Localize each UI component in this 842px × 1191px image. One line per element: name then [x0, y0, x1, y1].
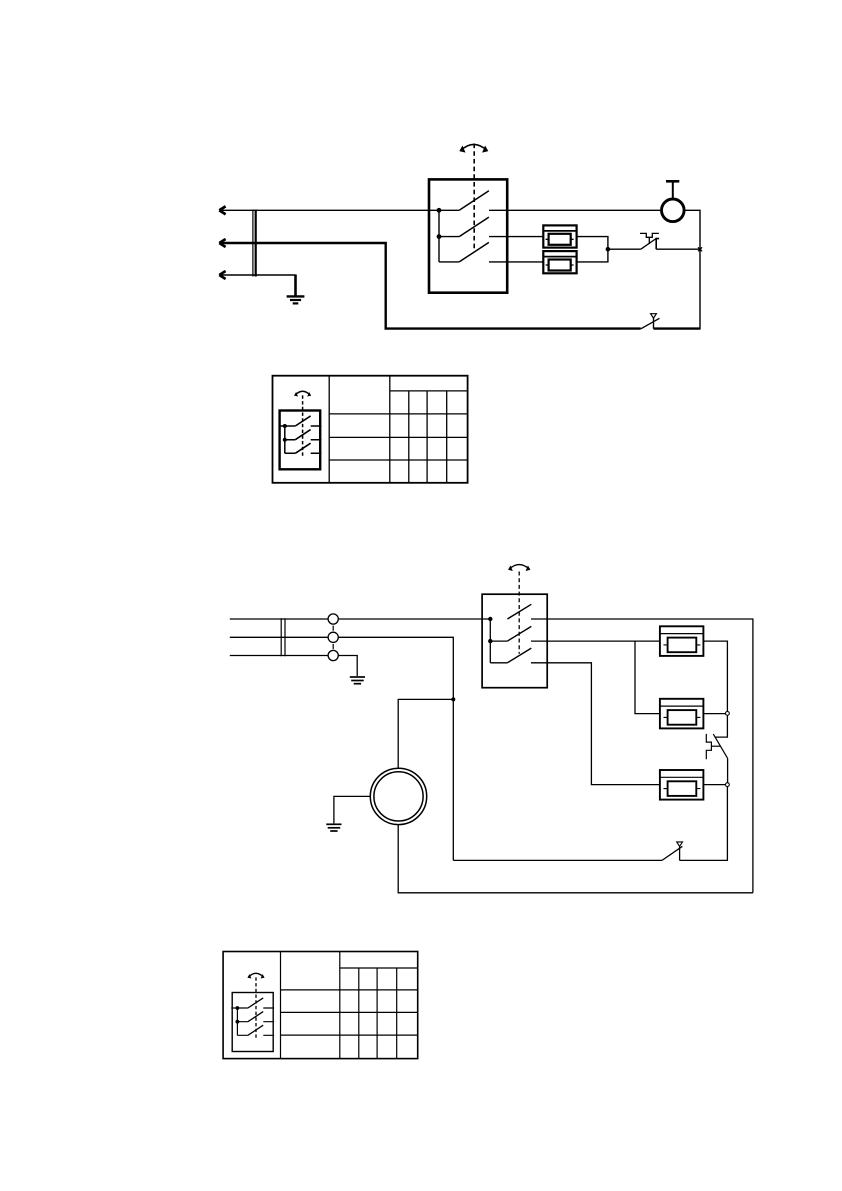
rotary switch S1 enclosure	[429, 179, 507, 292]
symbol S2 stubs	[237, 1008, 248, 1035]
switch S2 shaft (dashed)	[518, 572, 520, 654]
limit switch S3 actuator triangle	[651, 314, 657, 319]
wire L2 phase line (bold) with bends to bottom run	[220, 243, 641, 329]
limit switch S3 post	[653, 318, 655, 329]
table row lines upper	[390, 390, 468, 392]
wire S1 internal bus	[438, 210, 440, 262]
switch S2 blade 2	[507, 626, 531, 641]
symbol S1 junction dots	[283, 424, 287, 428]
symbol S2 junction dots	[236, 1006, 240, 1010]
symbol switch S2 box in table	[232, 993, 273, 1052]
symbol S1 blades	[295, 416, 310, 453]
motor M1 shaft symbol	[672, 182, 674, 198]
wire S2 stubs	[490, 641, 507, 663]
wire S1 stub2	[439, 236, 459, 238]
node S2 pin1 junction dot	[488, 617, 492, 621]
node J2 crossing mark	[698, 247, 702, 251]
limit switch S4 actuator triangle	[677, 842, 683, 847]
table column dividers upper	[329, 376, 390, 483]
wire L1 phase line with arrow	[220, 209, 460, 211]
node K3 junction dot	[451, 697, 455, 701]
heating element E4	[660, 699, 704, 729]
symbol S1 stubs	[285, 426, 296, 453]
arrowhead L3	[219, 271, 225, 279]
symbol S2 bus	[236, 1008, 238, 1035]
symbol S1 output stubs	[311, 426, 322, 453]
thermostat F1 thermal actuator bracket	[640, 233, 659, 237]
symbol switch S1 box in table	[280, 411, 321, 470]
switch S2 blade 3	[507, 648, 531, 663]
rotary switch S2 enclosure	[482, 594, 547, 688]
coupling dashes between terminals	[332, 626, 334, 650]
terminal strip X1 (double bar)	[252, 210, 254, 277]
wire L3 earth line with arrow	[220, 274, 296, 276]
symbol S2 input stub	[231, 1007, 237, 1009]
switch S2 blade 1	[507, 604, 531, 619]
arrowhead L1	[219, 206, 225, 214]
arrowhead L2	[219, 239, 225, 247]
node S1 pin1 junction dot	[437, 208, 442, 213]
wire M2 bottom to bottom rail	[398, 824, 753, 892]
wire K1 down to thermostat F2	[715, 715, 728, 737]
terminal circle P2	[328, 632, 338, 642]
terminal circle P3	[328, 650, 338, 660]
wire E5 output to node K2	[703, 784, 725, 786]
motor M2 inner circle	[374, 772, 423, 821]
wire S2 output1 to right rail	[531, 619, 753, 893]
symbol S2 blades	[248, 998, 263, 1035]
wire K3 to motor M2 top	[398, 699, 453, 768]
thermostat F2 contact blade	[713, 734, 727, 758]
thermostat F1 contact blade	[641, 238, 657, 249]
table row lines lower	[340, 967, 418, 969]
switch S1 blade 1	[459, 191, 489, 211]
switch S1 blade 2	[459, 217, 489, 237]
wire S1 output1 to motor M1	[489, 209, 660, 211]
wire S1 output3 to element E2	[489, 261, 543, 263]
node K1 terminal ring	[726, 712, 730, 716]
symbol S1 input stub	[279, 425, 285, 427]
table column dividers lower	[281, 952, 340, 1059]
switch S2 rotation arc arrow	[509, 565, 529, 569]
wire S2 output3 to element E5	[531, 663, 660, 785]
limit switch S3 blade	[641, 318, 660, 329]
heating element E1	[543, 225, 576, 247]
node S1 pin2 junction dot	[437, 234, 442, 239]
switch S1 shaft (dashed)	[473, 144, 475, 250]
ground PE1	[294, 275, 297, 297]
symbol S2 shaft (dashed)	[255, 977, 257, 1038]
heating element E2	[543, 251, 576, 273]
wire S4 to motor branch	[453, 859, 662, 861]
wire E2 output to node J1	[577, 249, 608, 262]
ground PE2	[350, 676, 365, 678]
wire E1 output to node J1	[577, 237, 608, 250]
wire S2 output2 to element E3	[531, 640, 660, 642]
wire K2 down to limit switch S4	[680, 787, 728, 861]
motor M1 body	[662, 199, 685, 222]
thermostat F1 fixed contact post	[656, 239, 659, 250]
symbol S2 output stubs	[263, 1008, 274, 1035]
thermostat F2 actuator stem	[711, 745, 720, 747]
symbol S1 rotation arc	[295, 391, 309, 395]
symbol S2 rotation arc	[249, 973, 263, 977]
terminal strip X2 (double bar)	[281, 618, 285, 656]
wire N2 phase line 2 with bend down	[230, 637, 453, 860]
wire N1 phase line 1	[230, 618, 491, 620]
switch S1 rotation arc arrow	[461, 144, 486, 150]
motor M2 outer circle	[370, 768, 426, 824]
wire F2 down to node K2	[727, 758, 729, 782]
switch S1 blade 3	[459, 242, 489, 262]
wire N3 earth line	[230, 656, 357, 677]
wire S2 internal bus	[489, 619, 491, 663]
wire M2 left to ground	[334, 796, 370, 823]
node S2 pin2 junction dot	[488, 639, 492, 643]
ground PE3	[326, 823, 341, 825]
node J1 junction dot	[606, 247, 611, 252]
wire S3 to right rail (bold)	[654, 327, 701, 329]
table frame lower	[223, 952, 418, 1059]
wire M1 to right rail	[684, 210, 700, 329]
node K2 terminal ring	[726, 783, 730, 787]
wire E4 output to node K1	[703, 713, 725, 715]
wire branch to element E4	[635, 641, 660, 714]
wire F1 to node J2	[656, 248, 700, 250]
symbol S1 bus	[284, 426, 286, 453]
limit switch S4 blade	[662, 846, 682, 860]
limit switch S4 post	[679, 847, 681, 861]
wire S1 output2 to element E1	[489, 236, 543, 238]
table frame upper	[273, 376, 468, 483]
terminal circle P1	[328, 614, 338, 624]
heating element E3	[660, 626, 704, 656]
thermostat F2 thermal actuator bracket	[706, 734, 711, 759]
wire S1 stub3	[439, 261, 459, 263]
symbol S1 shaft (dashed)	[302, 395, 304, 456]
heating element E5	[660, 770, 704, 800]
wire J1 to thermostat F1	[608, 248, 641, 250]
thermostat F1 actuator stem	[648, 237, 650, 244]
wire E3 output down to node K1	[703, 641, 727, 711]
